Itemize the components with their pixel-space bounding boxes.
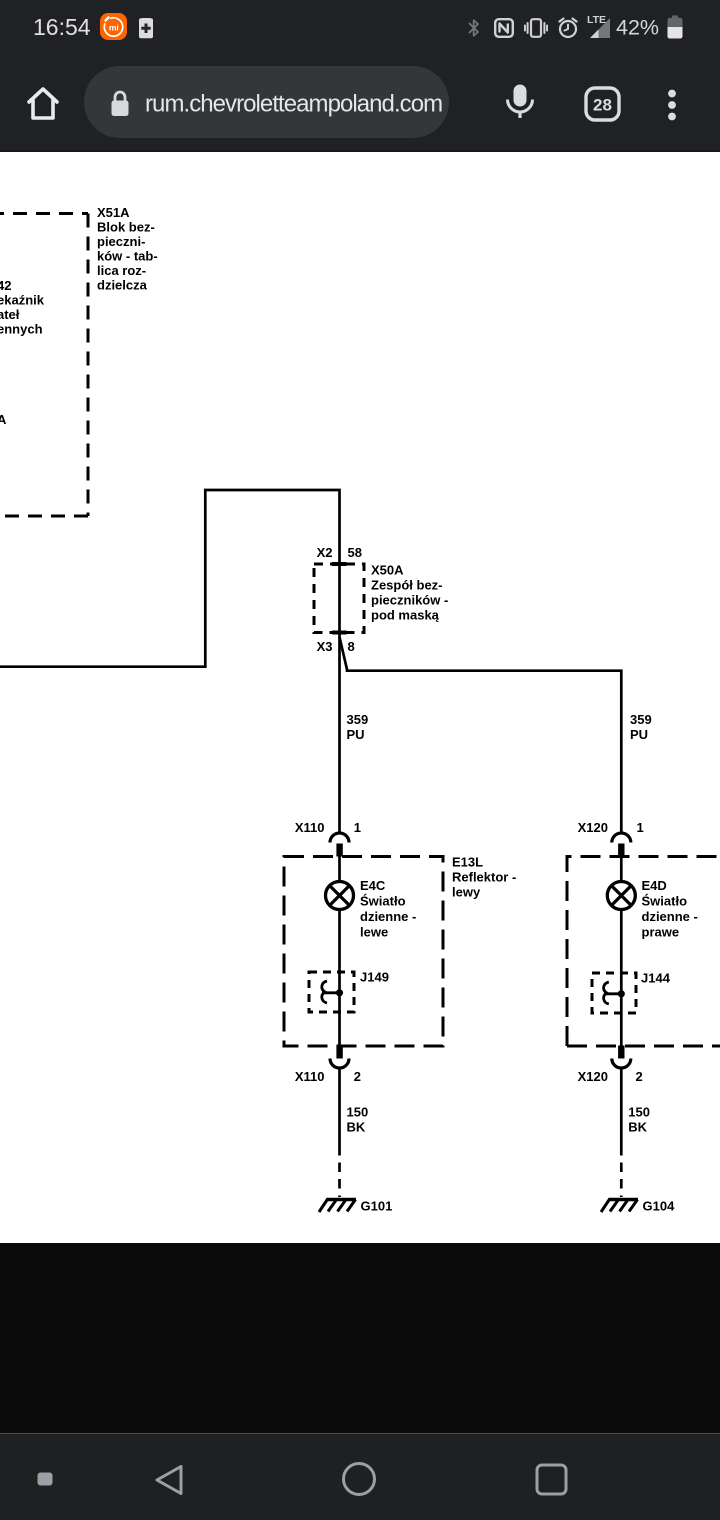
bluetooth: [468, 19, 480, 37]
svg-text:pieczni-: pieczni-: [97, 234, 145, 249]
notification: battery saver icon: [138, 15, 154, 39]
wire 150 BK (left, dashed part): [338, 1146, 341, 1197]
svg-text:ennych: ennych: [0, 322, 43, 337]
wire label 150 BK (left): [347, 1105, 369, 1135]
svg-text:dzienne -: dzienne -: [360, 909, 416, 924]
svg-text:BK: BK: [628, 1120, 647, 1135]
svg-text:8: 8: [348, 639, 355, 654]
svg-text:42%: 42%: [616, 16, 659, 40]
wire label 359 PU (left): [347, 712, 369, 742]
notification: orange app icon: [100, 13, 127, 40]
label E13L: [452, 855, 516, 900]
svg-text:E4D: E4D: [642, 878, 667, 893]
wire 150 BK (right, dashed part): [620, 1146, 623, 1197]
svg-text:pod maską: pod maską: [371, 608, 440, 623]
tab counter: [584, 86, 621, 122]
lock icon: [110, 90, 130, 117]
svg-text:2: 2: [354, 1069, 361, 1084]
svg-text:X120: X120: [578, 820, 608, 835]
svg-text:28: 28: [593, 96, 612, 115]
connector block X51A dashed box: [0, 214, 88, 517]
svg-text:X50A: X50A: [371, 563, 404, 578]
svg-text:Światło: Światło: [360, 894, 406, 909]
svg-text:pieczników -: pieczników -: [371, 593, 448, 608]
svg-text:2: 2: [636, 1069, 643, 1084]
ground G104: [601, 1199, 675, 1214]
url pill: [84, 66, 449, 138]
svg-text:rum.chevroletteampoland.com: rum.chevroletteampoland.com: [145, 91, 442, 118]
svg-text:E4C: E4C: [360, 878, 386, 893]
svg-text:58: 58: [348, 545, 362, 560]
svg-text:ekaźnik: ekaźnik: [0, 293, 45, 308]
label X51A: [97, 205, 158, 293]
battery icon: [666, 15, 684, 39]
svg-text:X3: X3: [317, 639, 333, 654]
time: [33, 13, 103, 41]
node X2 pin 58: [317, 545, 362, 564]
svg-text:150: 150: [628, 1105, 650, 1120]
svg-text:J144: J144: [641, 971, 671, 986]
wire inside left lamp: [338, 856, 341, 1046]
nfc: [494, 18, 514, 38]
svg-text:1: 1: [637, 820, 644, 835]
fuse block X50A dashed box: [314, 564, 364, 633]
url text: [145, 85, 450, 125]
svg-text:lewy: lewy: [452, 885, 481, 900]
wire from relay to X50A (solid): [0, 490, 340, 832]
svg-text:G101: G101: [361, 1199, 393, 1214]
svg-text:mi: mi: [109, 22, 119, 32]
ground G101: [319, 1199, 392, 1214]
connector X110 pin 1: [295, 820, 361, 857]
wire 150 BK (right, solid part): [620, 1068, 623, 1146]
svg-text:42: 42: [0, 278, 11, 293]
connector X120 pin 1: [578, 820, 644, 857]
lamp E4C: [326, 882, 354, 910]
svg-text:359: 359: [630, 712, 652, 727]
svg-text:X120: X120: [578, 1069, 608, 1084]
svg-text:Zespół bez-: Zespół bez-: [371, 578, 443, 593]
label X50A: [371, 563, 448, 623]
home button: [25, 84, 61, 122]
svg-text:dzielcza: dzielcza: [97, 278, 148, 293]
svg-text:16:54: 16:54: [33, 14, 91, 40]
battery percent: [616, 15, 664, 41]
svg-text:dzienne -: dzienne -: [642, 909, 698, 924]
svg-text:X110: X110: [295, 1069, 325, 1084]
svg-text:G104: G104: [643, 1199, 676, 1214]
svg-text:PU: PU: [630, 727, 648, 742]
node X3 pin 8: [317, 633, 355, 655]
svg-text:PU: PU: [347, 727, 365, 742]
connector X120 pin 2: [578, 1046, 643, 1085]
svg-text:X110: X110: [295, 820, 325, 835]
svg-text:lewe: lewe: [360, 925, 388, 940]
alarm clock: [557, 17, 579, 39]
svg-text:ateł: ateł: [0, 307, 20, 322]
lamp E4D: [607, 882, 635, 910]
headlamp E13L dashed box: [284, 857, 443, 1047]
svg-text:150: 150: [347, 1105, 369, 1120]
svg-text:Światło: Światło: [642, 894, 688, 909]
wire label 150 BK (right): [628, 1105, 650, 1135]
svg-text:prawe: prawe: [642, 925, 680, 940]
svg-text:1: 1: [354, 820, 361, 835]
svg-text:ków - tab-: ków - tab-: [97, 249, 158, 264]
svg-text:E13L: E13L: [452, 855, 483, 870]
svg-text:BK: BK: [347, 1120, 366, 1135]
label E4C: [360, 878, 416, 940]
wire 150 BK (left, solid part): [338, 1068, 341, 1146]
svg-text:Blok bez-: Blok bez-: [97, 220, 155, 235]
svg-text:X2: X2: [317, 545, 333, 560]
connector X110 pin 2: [295, 1046, 361, 1085]
label relay K42 (clipped at screen edge): [0, 278, 45, 427]
jumper J149 dashed box: [309, 972, 354, 1012]
svg-text:359: 359: [347, 712, 369, 727]
mic icon: [504, 83, 536, 121]
svg-text:lica roz-: lica roz-: [97, 263, 146, 278]
label E4D: [642, 878, 698, 940]
svg-text:J149: J149: [360, 970, 389, 985]
svg-text:LTE: LTE: [587, 14, 606, 26]
kebab menu: [664, 86, 680, 124]
LTE + signal triangle: [586, 12, 612, 39]
headlamp E4D dashed box (clipped right): [567, 857, 720, 1047]
jumper J144 dashed box: [592, 973, 636, 1013]
wire branch to right lamp: [340, 637, 622, 832]
wire inside right lamp: [620, 856, 623, 1046]
wire label 359 PU (right): [630, 712, 652, 742]
svg-text:A: A: [0, 412, 7, 427]
svg-text:X51A: X51A: [97, 205, 130, 220]
svg-text:Reflektor -: Reflektor -: [452, 870, 516, 885]
vibrate: [524, 18, 548, 38]
